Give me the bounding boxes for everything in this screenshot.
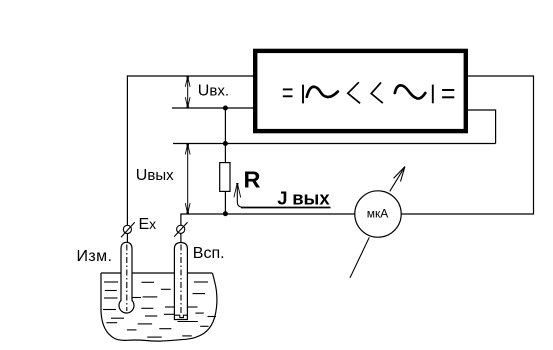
svg-text:вых: вых <box>292 188 330 209</box>
wire stub from Ex connector to electrode top <box>126 234 128 244</box>
symbol sine wave left (AC) <box>307 87 338 97</box>
vessel liquid surface line <box>101 272 212 274</box>
meter needle lower segment <box>350 237 369 277</box>
symbol equals right (DC) <box>442 90 454 97</box>
auxiliary electrode tube <box>174 243 187 320</box>
wire second input line into box <box>172 107 254 109</box>
connector Ex (left, circle with slash) <box>123 225 131 233</box>
svg-text:мкА: мкА <box>367 207 389 221</box>
svg-text:Изм.: Изм. <box>77 248 113 265</box>
dimension arrow Uvyh between output line and bottom line <box>185 144 190 214</box>
wire stub from right connector to electrode top <box>180 233 182 243</box>
svg-text:Всп.: Всп. <box>193 245 225 262</box>
node junction dot on second line <box>223 106 228 111</box>
symbol amplifier chevron 1 <box>348 82 360 103</box>
wire right return of output line up into box right side <box>467 110 496 144</box>
wire bottom horizontal to microammeter <box>181 214 355 226</box>
wire vertical below resistor <box>224 191 226 214</box>
symbol amplifier chevron 2 <box>371 83 383 104</box>
measuring electrode (glass) bulb <box>119 298 134 313</box>
svg-text:Uвых: Uвых <box>136 167 174 184</box>
wire vertical bus through resistor top <box>224 108 226 163</box>
microammeter M1 <box>355 191 401 237</box>
auxiliary electrode bottom junction <box>174 315 187 317</box>
svg-text:Ex: Ex <box>139 216 157 233</box>
node junction dot on bottom line <box>223 211 228 216</box>
symbol bar left <box>302 85 304 104</box>
auxiliary electrode center dash-dot line <box>180 245 182 315</box>
wire from microammeter right side up to box top output <box>401 76 533 214</box>
wire top-left horizontal into converter box <box>127 75 255 77</box>
converter box U1 (DC-AC amplifier AC-DC) <box>255 51 466 131</box>
liquid dashes <box>103 282 216 337</box>
dimension arrow Uvx between line1 and line2 <box>185 76 190 107</box>
vessel with solution <box>101 273 217 341</box>
arrow J out pointing to resistor with underline <box>234 183 331 208</box>
wire output line (third horizontal) <box>173 143 496 145</box>
symbol bar right <box>432 85 434 104</box>
meter needle upper segment with arrowhead <box>390 167 405 192</box>
connector right (circle with slash) <box>177 225 185 233</box>
svg-text:R: R <box>244 167 261 193</box>
measuring electrode tube <box>121 242 132 300</box>
resistor R <box>220 163 230 192</box>
symbol equals left (DC) <box>283 89 293 96</box>
symbol sine wave right (AC) <box>395 85 426 98</box>
measuring electrode center dash-dot line <box>126 245 128 312</box>
wire left vertical from top corner down to Ex connector <box>126 75 128 225</box>
svg-text:Uвх.: Uвх. <box>198 83 229 100</box>
svg-text:J: J <box>277 188 287 209</box>
node junction dot on output line <box>223 141 228 146</box>
